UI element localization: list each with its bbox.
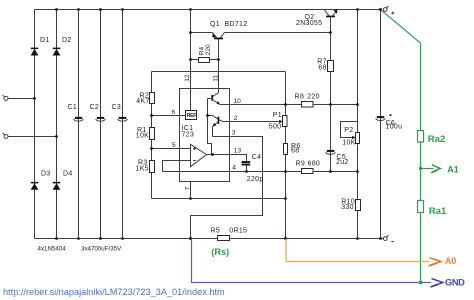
svg-text:68: 68 [291,148,299,155]
node pin7 junction [189,197,192,200]
wire A1 tap with arrow [419,165,440,173]
node bottom rail C6 [379,237,382,240]
svg-text:P1: P1 [273,112,282,119]
svg-text:GND: GND [445,277,465,287]
wire R2 top feed [152,71,286,73]
svg-text:2u2: 2u2 [336,159,349,166]
capacitor C6 [376,114,392,120]
wire internal base line [208,99,212,155]
node R4 right [217,58,220,61]
wire R4 link [191,59,219,61]
svg-text:A1: A1 [447,165,459,175]
svg-text:4K7: 4K7 [136,98,149,105]
svg-text:A0: A0 [445,256,457,266]
terminal AC2 [3,133,8,139]
resistor R6 [284,144,288,155]
wire C3 column [122,10,124,239]
node C4 bottom [245,170,248,173]
svg-text:Ra1: Ra1 [429,206,447,217]
wire pin10 net [220,104,358,106]
transistor Q2 [324,10,337,18]
resistor R3 [150,161,155,173]
node Q2 base junction [329,31,332,34]
node pin10 P2 col [356,103,359,106]
label minus sign [391,241,394,243]
svg-text:3: 3 [232,130,236,137]
transistor T1 internal [208,93,221,105]
resistor R2 [150,93,155,104]
wire Q1 collector link [225,32,331,34]
diode D3 [31,182,39,190]
capacitor C3 [118,117,128,121]
arrow A0 [429,258,441,267]
terminal output plus [383,6,388,11]
svg-text:13: 13 [234,147,242,154]
node bottom rail D4 [55,237,58,240]
svg-text:C2: C2 [90,104,100,111]
node op-amp output [211,153,214,156]
node dots top rail [55,8,382,11]
svg-text:2N3055: 2N3055 [296,20,322,27]
svg-text:C3: C3 [112,104,122,111]
node green GND junction [419,281,423,285]
node Q1 emitter junction [189,31,192,34]
svg-text:330: 330 [341,204,354,211]
svg-text:680: 680 [308,160,321,167]
node bottom rail C2 [99,237,102,240]
wire P2 column [357,10,359,239]
svg-text:REF: REF [187,113,197,119]
svg-text:C1: C1 [68,104,78,111]
terminal AC1 [3,95,8,101]
node P2 bottom [356,170,359,173]
svg-text:Q1: Q1 [210,21,220,28]
node pin4 x285 [284,170,287,173]
svg-text:12: 12 [184,74,191,82]
svg-text:2: 2 [234,115,238,122]
resistor R5 in bottom rail [218,236,230,241]
svg-text:5: 5 [172,142,176,149]
wire C1 column [78,10,80,239]
capacitor C2 [96,117,106,121]
wire output / pin13 [207,155,247,162]
node pin6 divider [150,114,153,117]
wire pin6 link [152,115,186,117]
node bottom rail pin3/GND [189,237,192,240]
svg-text:68: 68 [318,65,326,72]
node R4 left [189,58,192,61]
svg-text:http://reber.si/napajalniki/LM: http://reber.si/napajalniki/LM723/723_3A… [3,287,225,297]
svg-text:11: 11 [212,75,219,82]
wire D2 column [56,10,58,239]
svg-text:10K: 10K [136,133,149,140]
svg-text:D4: D4 [63,170,73,177]
svg-text:1K5: 1K5 [136,166,149,173]
wire D1 column [34,10,36,239]
svg-text:4: 4 [232,165,236,172]
IC1 box [180,89,230,182]
node bottom rail P2 [356,237,359,240]
node bottom rail C3 [121,237,124,240]
svg-text:(Rs): (Rs) [211,247,229,257]
diode D1 [31,48,39,56]
wire C4 bottom stub [246,166,248,172]
node bottom rail sense [284,237,287,240]
resistor R8 [302,102,314,108]
wire inverting input detour (pin 4) [163,161,191,172]
svg-text:C4: C4 [252,154,262,161]
wire C6 column [380,10,382,239]
diode D2 [53,48,61,56]
resistor R9 [302,169,314,174]
svg-text:500: 500 [269,124,282,131]
node T2 base junction [206,114,209,117]
svg-text:0R15: 0R15 [229,227,247,234]
label plus sign [391,12,394,15]
reference REF block [186,111,197,120]
svg-text:4x1N5404: 4x1N5404 [38,245,67,252]
svg-text:D3: D3 [41,170,51,177]
wire pin7 stub [190,182,192,199]
wire pin4 / R9 net [163,171,358,173]
svg-text:D1: D1 [40,37,50,44]
node AC1 junction [33,97,36,100]
arrow GND [431,279,443,288]
wire pin3 route [191,137,263,239]
svg-text:10: 10 [234,98,242,105]
svg-text:3x4700uF/35V: 3x4700uF/35V [81,245,122,252]
wire sense column x285 [285,72,287,239]
wire Q1 emitter link [191,32,213,34]
capacitor C4 [242,161,251,165]
svg-text:220: 220 [307,93,320,100]
diode D4 [53,182,61,190]
node bottom rail C1 [77,237,80,240]
svg-text:7: 7 [184,186,191,190]
wire pin5 link [152,148,191,150]
terminal output minus [383,235,388,240]
svg-text:R5: R5 [211,227,221,234]
wire blue GND [192,239,432,283]
svg-text:R8: R8 [295,93,305,100]
resistor R7 [328,61,334,72]
wire C2 column [100,10,102,239]
wire R divider column [151,72,153,199]
svg-text:220p: 220p [247,176,264,183]
svg-text:P2: P2 [344,127,353,134]
wire green output sense [382,10,421,282]
wire R3 bottom / pin7 net [152,198,286,200]
wire top rail [35,9,381,11]
node pin5 divider [150,147,153,150]
svg-text:723: 723 [182,131,195,138]
wire Q2 base / R7 / C5 column [330,17,332,171]
wire orange A0 [286,239,429,262]
op-amp error amplifier [191,144,207,166]
svg-text:10K: 10K [342,139,355,146]
wire pin11 / Q1 base column [218,39,220,93]
transistor T2 internal [208,116,229,137]
wire AC input 2 [8,136,57,138]
resistor R1 [150,128,155,140]
resistor R10 [356,200,361,211]
svg-text:6: 6 [172,109,176,116]
wire pin12 column [190,10,192,111]
svg-text:R9: R9 [296,160,306,167]
resistor R4 [199,58,210,63]
potentiometer P1 [279,116,287,127]
node pin10 R7 [329,103,332,106]
svg-text:100u: 100u [386,124,403,131]
wire pin2 link to P1 wiper [229,121,281,123]
node C5 bottom [329,170,332,173]
wire bottom rail [35,238,385,240]
svg-text:220: 220 [205,44,212,55]
capacitor C1 [74,117,84,121]
capacitor C5 [326,150,336,154]
svg-text:Ra2: Ra2 [428,134,445,145]
svg-text:D2: D2 [62,37,72,44]
node AC2 junction [55,135,58,138]
potentiometer P2 [341,122,360,144]
resistor Ra2 [418,131,424,143]
node pin10 x285 [284,103,287,106]
resistor Ra1 [418,201,424,213]
transistor Q1 [212,33,224,40]
node x285 y198 junction [284,197,287,200]
wire AC input 1 [8,98,35,100]
svg-text:BD712: BD712 [225,21,248,28]
